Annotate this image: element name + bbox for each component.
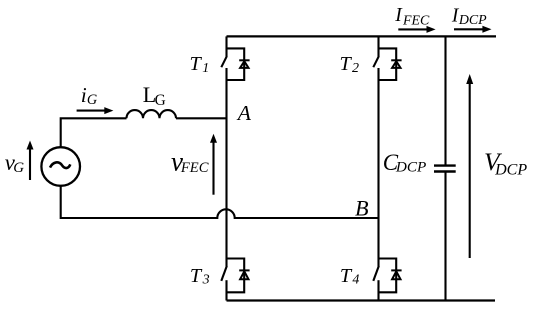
svg-text:DCP: DCP xyxy=(494,161,527,178)
svg-text:G: G xyxy=(87,92,98,108)
diode D3 (antiparallel with T3) xyxy=(239,270,249,279)
svg-text:T: T xyxy=(340,265,353,287)
right leg lower segment (T4 to bottom rail) xyxy=(377,280,379,300)
svg-text:3: 3 xyxy=(202,273,210,288)
svg-text:T: T xyxy=(340,53,353,75)
svg-text:I: I xyxy=(394,5,403,26)
svg-text:i: i xyxy=(81,83,87,107)
svg-text:G: G xyxy=(155,92,166,109)
svg-text:1: 1 xyxy=(202,61,209,76)
wire inductor to node A xyxy=(176,117,227,119)
svg-text:DCP: DCP xyxy=(395,158,426,175)
svg-text:4: 4 xyxy=(352,273,359,288)
svg-text:FEC: FEC xyxy=(402,13,430,28)
diode D1 (antiparallel with T1) xyxy=(239,60,249,68)
label C_DCP xyxy=(383,150,427,176)
svg-text:A: A xyxy=(236,101,252,125)
label L_G xyxy=(143,82,166,109)
label v_FEC xyxy=(171,147,209,177)
label T2 xyxy=(340,53,360,76)
left leg lower segment (T3 to bottom rail) xyxy=(225,280,227,300)
AC source sine symbol xyxy=(50,162,70,168)
label i_G xyxy=(81,83,98,108)
diode D4 (antiparallel with T4) xyxy=(391,270,401,279)
label v_G xyxy=(5,150,25,176)
svg-text:FEC: FEC xyxy=(180,160,209,176)
arrow V_DCP (upwards) xyxy=(466,74,473,258)
transistor T1 cell frame xyxy=(227,48,245,80)
wire source top to inductor (node A wire, left part) xyxy=(61,118,127,147)
label I_FEC xyxy=(394,5,430,29)
transistor T3 cell frame xyxy=(227,259,245,293)
top DC rail xyxy=(227,35,497,37)
transistor T1 switch blade xyxy=(221,56,227,67)
arrow v_FEC (upwards) xyxy=(210,134,217,195)
svg-text:T: T xyxy=(190,53,203,75)
transistor T2 cell frame xyxy=(379,48,397,80)
svg-text:B: B xyxy=(355,196,369,221)
left leg upper segment (top rail to T1 switch) xyxy=(225,36,227,56)
svg-text:DCP: DCP xyxy=(458,13,487,28)
right leg upper segment (top rail to T2 switch) xyxy=(377,36,379,56)
capacitor C_DCP top lead xyxy=(444,36,446,165)
inductor L_G (3 humps) xyxy=(127,110,177,118)
right leg middle segment (T2 to T4 through node B) xyxy=(377,68,379,267)
left leg middle segment (T1 to T3 through node A and hop) xyxy=(225,68,227,267)
AC source v_G (circle) xyxy=(41,147,80,186)
arrow v_G (upwards) xyxy=(27,141,34,181)
arrow I_DCP (rightwards) xyxy=(454,26,492,33)
label I_DCP xyxy=(451,5,487,28)
arrow I_FEC (rightwards) xyxy=(398,26,435,33)
label T1 xyxy=(190,53,210,76)
arrow i_G (grid current, rightwards) xyxy=(77,107,114,114)
svg-text:T: T xyxy=(190,265,203,287)
transistor T3 switch blade xyxy=(221,266,227,281)
transistor T2 switch blade xyxy=(373,56,379,67)
wire source bottom to node B (with hop over left leg) xyxy=(61,186,379,218)
transistor T4 switch blade xyxy=(373,266,379,281)
svg-text:G: G xyxy=(13,160,24,176)
capacitor C_DCP bottom lead xyxy=(444,172,446,301)
svg-text:2: 2 xyxy=(352,61,359,76)
diode D2 (antiparallel with T2) xyxy=(391,60,401,68)
transistor T4 cell frame xyxy=(379,259,397,293)
label V_DCP xyxy=(484,147,527,178)
label T3 xyxy=(190,265,210,288)
capacitor C_DCP plates xyxy=(434,166,456,172)
bottom DC rail xyxy=(227,299,496,301)
label T4 xyxy=(340,265,360,288)
